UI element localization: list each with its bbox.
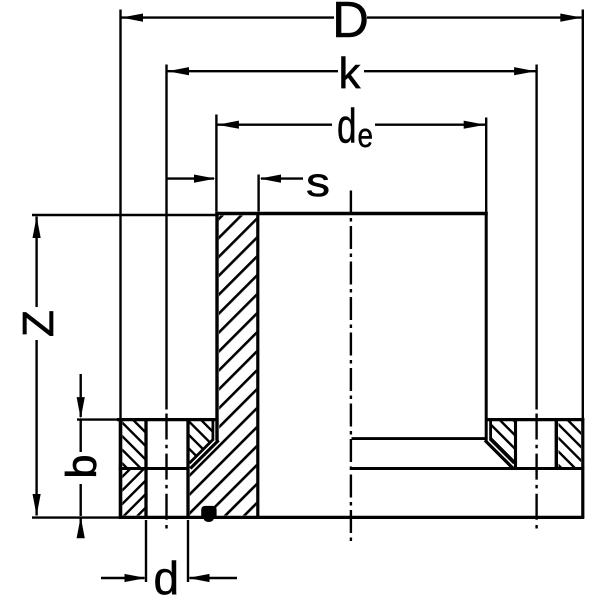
bolt hole wall right-inner xyxy=(514,420,517,468)
svg-text:D: D xyxy=(332,0,369,48)
extension line de right xyxy=(485,118,487,212)
pipe top face line xyxy=(215,212,487,216)
dimension line b below bottom xyxy=(79,518,81,537)
extension line s right xyxy=(257,175,259,212)
dimension line d right tail xyxy=(190,577,238,579)
stub taper right xyxy=(485,440,513,468)
svg-text:d: d xyxy=(337,101,357,154)
flange outer edge right xyxy=(581,418,584,518)
bolt hole centerline left (dash-dot through flange) xyxy=(165,414,167,532)
extension line k left / s left (becomes bolt centerline) xyxy=(165,65,167,410)
arrow de left xyxy=(217,121,239,129)
dimension line b through flange xyxy=(79,420,81,452)
pipe outer wall left xyxy=(215,212,218,441)
extension line Z top (left of pipe top) xyxy=(32,214,216,216)
arrow D right xyxy=(560,14,582,22)
arrow b lower (points up at bottom face) xyxy=(77,517,85,539)
pipe bore line left xyxy=(256,212,259,517)
flange top right xyxy=(486,418,585,421)
flange step line right xyxy=(352,467,585,470)
extension line D right xyxy=(582,10,584,419)
bolt hole wall left-inner / collar edge xyxy=(186,420,189,517)
extension line d left xyxy=(145,520,147,582)
stub taper left xyxy=(190,440,218,468)
extension line b top (flange top towards b) xyxy=(77,418,117,420)
extension line k right (becomes bolt centerline) xyxy=(535,65,537,410)
dimension line D xyxy=(122,16,335,18)
pipe outer wall right xyxy=(485,212,488,441)
bottom face extension line to dimension Z and b xyxy=(32,516,119,518)
flange bore left xyxy=(211,420,214,441)
stub shoulder edge right xyxy=(352,437,488,440)
extension line d right xyxy=(187,520,189,582)
hatch: flange outer-right upper block xyxy=(559,421,582,467)
arrow D left xyxy=(122,14,144,22)
dimension line k xyxy=(168,70,339,72)
hatch: flange outer-left upper block xyxy=(123,421,145,467)
dimension line d left tail xyxy=(101,577,145,579)
hatch: stub pipe wall and collar (left, sectioned) xyxy=(190,216,257,516)
flange bore right xyxy=(489,420,492,441)
bolt hole wall left-outer xyxy=(144,421,147,516)
flange top left xyxy=(117,418,217,421)
arrow s (points right at wall outer face) xyxy=(194,175,216,183)
flange outer edge left xyxy=(119,418,123,518)
svg-text:k: k xyxy=(339,49,362,98)
o-ring seal black square xyxy=(201,506,216,519)
dimension line s right part with left-pointing arrow xyxy=(261,177,303,179)
arrow k right xyxy=(514,67,536,75)
bottom face line xyxy=(119,516,584,519)
svg-text:s: s xyxy=(306,159,330,205)
bolt hole centerline right (dash-dot through flange) xyxy=(535,414,537,532)
arrow s (points left at wall inner face) xyxy=(260,175,282,183)
svg-text:e: e xyxy=(358,117,374,155)
hatch: flange outer-left lower block xyxy=(123,470,145,516)
dimension line Z upper part xyxy=(35,217,37,308)
dimension line b above flange xyxy=(79,374,81,417)
arrow b upper (points down at flange top) xyxy=(77,397,85,419)
hatch: flange inner-right upper block (chamfered) xyxy=(492,421,514,463)
arrow d left (points right) xyxy=(125,574,147,582)
extension line de left / s measure line xyxy=(215,115,217,212)
dimension line s left part with right-pointing arrow xyxy=(167,177,215,179)
main vertical centerline xyxy=(350,191,352,543)
svg-text:d: d xyxy=(154,552,180,600)
extension line D left xyxy=(119,10,121,419)
flange chamfer left xyxy=(189,440,213,464)
hatch: flange inner-left upper block (chamfered) xyxy=(190,421,212,462)
dimension line de xyxy=(217,123,332,125)
bolt hole wall right-outer xyxy=(555,421,558,468)
svg-text:Z: Z xyxy=(14,310,63,337)
svg-text:b: b xyxy=(58,455,106,479)
arrow Z bottom (points down) xyxy=(33,494,41,516)
flange recess line left xyxy=(119,467,190,470)
dimension line Z lower part xyxy=(35,340,37,516)
arrow d right (points left) xyxy=(188,574,210,582)
arrow de right xyxy=(464,121,486,129)
flange chamfer right xyxy=(491,440,515,464)
arrow Z top (points up) xyxy=(33,217,41,239)
arrow k left xyxy=(168,67,190,75)
